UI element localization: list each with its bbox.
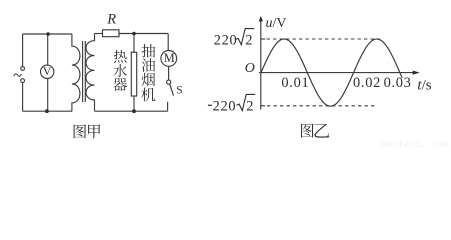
caption 图 of 图甲 xyxy=(74,125,87,139)
junction dot at heater branch bottom xyxy=(132,109,136,113)
graph x-axis xyxy=(259,72,417,74)
wire: heater branch upper xyxy=(133,34,135,53)
caption 甲 of 图甲 xyxy=(88,125,100,139)
junction dot at voltmeter top xyxy=(46,32,50,36)
y-axis arrowhead xyxy=(259,16,263,21)
AC source tilde symbol xyxy=(14,74,22,76)
label 烟 (range-hood text char 3) xyxy=(142,73,156,87)
y tick label +220sqrt2 xyxy=(214,29,255,49)
voltmeter V1 branch wire upper xyxy=(47,34,49,65)
svg-text:t/s: t/s xyxy=(417,77,431,93)
wire: left vertical, top segment of AC source branch xyxy=(22,34,24,67)
wire: bottom wire of primary loop xyxy=(23,110,72,112)
label 油 (range-hood text char 2) xyxy=(142,58,156,71)
minus sign of -220sqrt2 xyxy=(208,104,212,106)
wire: secondary top to resistor R xyxy=(95,33,103,35)
wire: motor M to switch S pivot xyxy=(168,66,170,80)
tick at +220sqrt2 xyxy=(261,38,265,40)
svg-text:0.03: 0.03 xyxy=(384,75,412,91)
transformer T1 secondary winding xyxy=(86,34,94,112)
dashed peak line +220sqrt2 xyxy=(267,38,381,40)
wire: motor branch down from top wire xyxy=(167,34,169,51)
wire: top wire of primary loop xyxy=(23,33,72,35)
svg-text:M: M xyxy=(164,51,175,65)
svg-text:u/V: u/V xyxy=(266,16,287,31)
label 热 (water-heater text char 1) xyxy=(114,50,127,63)
label 水 (water-heater text char 2) xyxy=(114,64,127,77)
svg-text:0.02: 0.02 xyxy=(353,75,381,91)
svg-text:0.01: 0.01 xyxy=(281,75,309,91)
svg-text:S: S xyxy=(176,85,182,97)
radical sign of -220sqrt2 xyxy=(237,94,256,110)
svg-text:V: V xyxy=(43,64,52,78)
transformer T1 core line right xyxy=(84,41,86,102)
AC source terminal (lower circle) xyxy=(21,79,25,83)
transformer T1 core line left xyxy=(82,41,84,102)
motor M circle xyxy=(161,51,177,67)
svg-text:manfen5. com: manfen5. com xyxy=(382,139,450,149)
heater (热水器) element box xyxy=(131,52,136,96)
caption 乙 of 图乙 xyxy=(315,124,330,138)
wire: switch S lower stub xyxy=(167,102,169,111)
AC source terminal (upper circle) xyxy=(21,67,25,71)
switch S blade (open) xyxy=(170,84,174,95)
graph y-axis xyxy=(260,17,262,110)
svg-text:220: 220 xyxy=(214,33,238,49)
svg-text:R: R xyxy=(106,11,116,27)
transformer T1 primary winding xyxy=(72,34,80,111)
y tick label -220sqrt2 xyxy=(208,94,255,114)
junction dot at voltmeter bottom xyxy=(45,109,49,113)
x-axis arrowhead xyxy=(413,71,420,75)
label 抽 (range-hood text char 1) xyxy=(142,44,156,57)
sine curve u(t) xyxy=(261,39,402,106)
svg-text:O: O xyxy=(245,61,255,76)
dashed trough line -220sqrt2 xyxy=(267,105,376,107)
svg-text:220: 220 xyxy=(213,99,237,115)
voltmeter V1 branch wire lower xyxy=(47,78,49,111)
wire: left vertical, bottom segment of AC source branch xyxy=(22,83,24,112)
svg-text:2: 2 xyxy=(246,99,253,115)
resistor R body xyxy=(103,30,120,37)
radical sign of 220sqrt2 xyxy=(236,29,255,45)
wire: heater branch lower xyxy=(133,96,135,111)
wire: resistor R to range-hood branch corner xyxy=(119,33,168,35)
voltmeter V1 circle xyxy=(41,65,54,78)
caption 图 of 图乙 xyxy=(301,124,314,138)
tick at -220sqrt2 xyxy=(261,105,265,107)
junction dot at heater branch top xyxy=(132,32,136,36)
label 器 (water-heater text char 3) xyxy=(113,78,127,91)
svg-text:2: 2 xyxy=(245,33,252,49)
switch S pivot circle xyxy=(167,80,171,84)
label 机 (range-hood text char 4) xyxy=(141,88,155,102)
wire: bottom wire of secondary loop xyxy=(95,110,168,112)
